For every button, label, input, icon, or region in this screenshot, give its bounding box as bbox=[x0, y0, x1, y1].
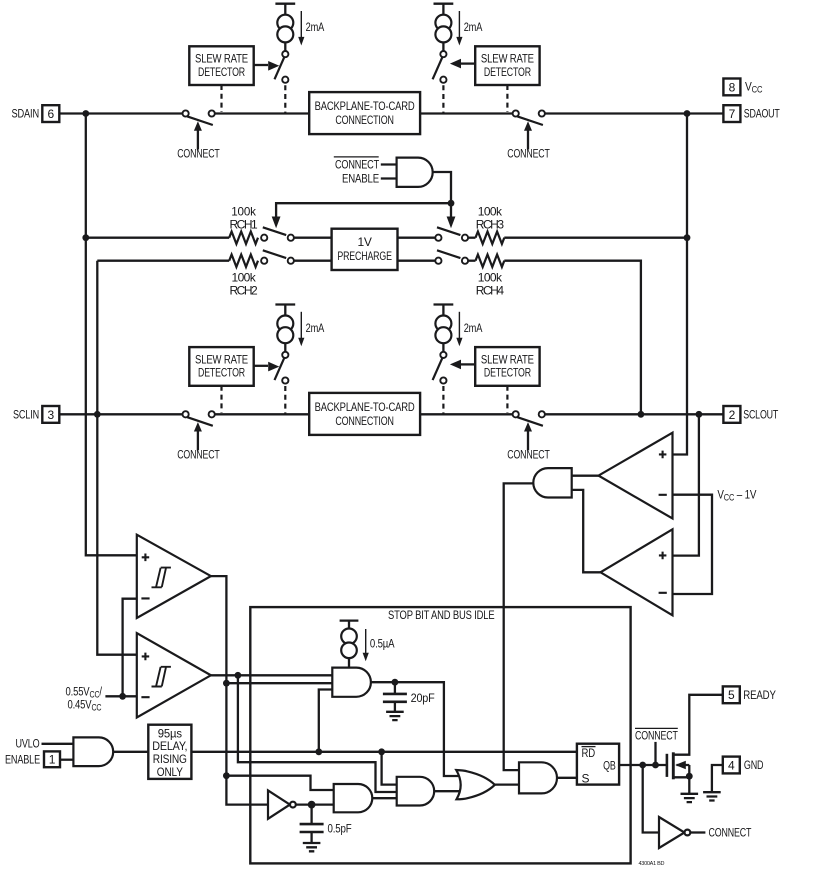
wire or gate output to and4 input2 bbox=[495, 783, 519, 785]
node schmitt B tap bbox=[235, 672, 242, 679]
wire schmitt A output down bbox=[211, 576, 268, 805]
node QB to connect-bar label bbox=[652, 762, 659, 769]
svg-text:RCH1: RCH1 bbox=[230, 218, 259, 232]
stop-bit block outline box bbox=[250, 607, 630, 863]
svg-text:RD: RD bbox=[582, 746, 596, 760]
buffer to connect output bbox=[659, 817, 685, 848]
dashed wire slew box to SCL rail bbox=[220, 386, 222, 413]
svg-text:100k: 100k bbox=[478, 204, 503, 218]
svg-text:CONNECT: CONNECT bbox=[709, 825, 752, 839]
wire delay tap down to and3 input1 bbox=[382, 752, 397, 785]
wire schmitt A tap to and2 input1 bbox=[226, 776, 333, 790]
pin 1 enable bbox=[44, 751, 60, 767]
or gate 1 bbox=[456, 770, 495, 799]
schmitt comparator A bbox=[137, 535, 211, 618]
resistor RCH2 100k bbox=[229, 255, 258, 267]
svg-text:3: 3 bbox=[48, 408, 55, 422]
node SCLIN junction bbox=[94, 411, 101, 418]
svg-text:0.5µA: 0.5µA bbox=[370, 637, 395, 651]
svg-text:S: S bbox=[582, 771, 590, 785]
svg-text:RCH4: RCH4 bbox=[476, 284, 505, 298]
1V precharge box bbox=[332, 229, 398, 270]
and gate U-CMP (left pointing) bbox=[533, 468, 571, 497]
wire RCH3 to SDAOUT vertical bbox=[504, 237, 687, 239]
svg-text:6: 6 bbox=[48, 107, 55, 121]
svg-text:QB: QB bbox=[603, 758, 616, 772]
wire SCL rail from pin 3 bbox=[59, 413, 185, 415]
wire QB down to connect buffer bbox=[643, 765, 659, 833]
flipflop RD-S-QB box bbox=[577, 744, 619, 785]
comparator A (vcc-1v sense, SCL) bbox=[599, 433, 673, 519]
capacitor 20pF bbox=[383, 694, 407, 702]
wire schmitt A tap to and1 input2 bbox=[226, 682, 332, 684]
wire buffer output bbox=[690, 831, 705, 833]
wire SCL rail middle bbox=[212, 413, 516, 415]
arrow slew detector to switch (SCL left) bbox=[254, 365, 268, 367]
svg-text:0.5pF: 0.5pF bbox=[328, 821, 352, 835]
svg-text:100k: 100k bbox=[231, 204, 257, 218]
wire precharge box to RCH4 switch bbox=[398, 260, 439, 262]
wire RCH4 to SCLOUT vertical bbox=[504, 261, 641, 415]
wire mosfet source and body to ground bbox=[675, 765, 690, 794]
svg-text:100k: 100k bbox=[232, 270, 257, 284]
wire comparator A output to and gate bbox=[572, 475, 599, 477]
bus switch with connect arrow (SDA left) bbox=[177, 110, 220, 160]
svg-text:100k: 100k bbox=[478, 270, 503, 284]
wire comparator and-gate output down to stop-bit and4 bbox=[504, 483, 534, 770]
node RCH4 to SCLOUT bbox=[638, 411, 645, 418]
svg-text:1: 1 bbox=[49, 753, 56, 767]
wire RCH1 switch to precharge box bbox=[291, 237, 332, 239]
ground below 20pF bbox=[386, 712, 404, 720]
wire 95us delay output to flipflop RD bbox=[191, 751, 577, 753]
backplane-to-card connection box (SDA) bbox=[309, 92, 420, 134]
node schmitt A tap to and1 bbox=[223, 680, 230, 687]
dashed wire slew box to SDA rail bbox=[220, 85, 222, 112]
svg-text:8: 8 bbox=[729, 80, 736, 94]
wire and1 output to or gate bbox=[371, 682, 459, 776]
wire schmitt B output to and1 input1 bbox=[211, 674, 332, 676]
node QB to buffer tap bbox=[639, 762, 646, 769]
svg-text:SCLOUT: SCLOUT bbox=[743, 408, 779, 422]
node threshold junction bbox=[119, 693, 126, 700]
wire enable input stub bbox=[381, 177, 397, 179]
wire SCLIN vertical RCH2 to schmitt B bbox=[97, 261, 137, 655]
capacitor 0.5pF bbox=[300, 824, 324, 832]
arrow onto RCH3 switch bbox=[447, 217, 456, 229]
node and1 output 20pF tap bbox=[392, 679, 399, 686]
wire RCH2 switch to precharge box bbox=[291, 260, 332, 262]
node schmitt A tap to and2 bbox=[223, 772, 230, 779]
svg-text:RCH3: RCH3 bbox=[476, 218, 505, 232]
ground for gnd pin bbox=[703, 792, 721, 800]
current source 0.5uA bbox=[340, 621, 369, 668]
dashed wire slew box to SDA rail bbox=[506, 85, 508, 112]
resistor RCH3 100k bbox=[476, 232, 505, 244]
node SCLOUT comparator tap bbox=[696, 411, 703, 418]
node SDAOUT junction bbox=[684, 110, 691, 117]
node 0.5pF tap bbox=[308, 801, 316, 809]
wire and2 output to and3 input3 bbox=[372, 797, 396, 799]
svg-text:CONNECT: CONNECT bbox=[335, 157, 380, 171]
svg-text:BACKPLANE-TO-CARD: BACKPLANE-TO-CARD bbox=[315, 400, 415, 414]
arrow slew detector to switch (SDA right) bbox=[461, 62, 475, 64]
dashed wire slew box to SCL rail bbox=[506, 386, 508, 413]
node RCH3 row to SDAOUT vertical bbox=[684, 234, 691, 241]
wire SDAOUT vertical down to comparator plus bbox=[673, 114, 688, 455]
svg-text:1V: 1V bbox=[357, 235, 371, 249]
mosfet Q1 body arrow bbox=[675, 761, 686, 770]
wire 0.5pF stub bbox=[310, 805, 312, 843]
svg-text:5: 5 bbox=[728, 688, 735, 702]
precharge switch RCH2 bbox=[261, 250, 294, 264]
wire connect-bar input stub bbox=[381, 163, 397, 165]
svg-text:UVLO: UVLO bbox=[16, 737, 40, 751]
slew rate detector box (SCL left) bbox=[189, 347, 253, 386]
pin 7 SDAOUT bbox=[723, 105, 740, 122]
svg-text:2: 2 bbox=[729, 408, 736, 422]
slew rate detector box (SDA left) bbox=[189, 46, 253, 85]
precharge switch RCH4 bbox=[435, 250, 468, 264]
wire schmitt B tap down to and3 input2 bbox=[238, 675, 397, 792]
ground below 0.5pF bbox=[303, 843, 321, 851]
wire enable pin to uvlo gate bbox=[60, 759, 74, 761]
svg-text:CONNECT: CONNECT bbox=[635, 729, 678, 743]
slew rate detector box (SDA right) bbox=[475, 46, 539, 85]
wire RCH3 row right bbox=[465, 237, 476, 239]
pin 2 SCLOUT bbox=[723, 406, 740, 423]
svg-text:READY: READY bbox=[743, 688, 776, 702]
wire inverter output to and2 input2 bbox=[296, 803, 334, 805]
wire precharge box to RCH3 switch bbox=[398, 237, 439, 239]
wire comparator B output to and gate lower input bbox=[572, 490, 601, 572]
wire RCH4 row right bbox=[465, 260, 476, 262]
and gate 3 bbox=[397, 777, 434, 806]
wire RCH2 row left bbox=[97, 260, 229, 262]
current source 2mA (SCL right) bbox=[433, 305, 483, 414]
wire comparator A minus to vcc-1v bracket bbox=[673, 495, 713, 594]
node SDAIN junction bbox=[82, 110, 89, 117]
pin 6 SDAIN bbox=[42, 105, 59, 122]
svg-text:PRECHARGE: PRECHARGE bbox=[337, 249, 392, 263]
wire connect-bar label stub bbox=[654, 742, 656, 765]
current source 2mA (SDA left) bbox=[275, 4, 325, 113]
current source 2mA (SDA right) bbox=[433, 4, 483, 113]
svg-text:STOP BIT AND BUS IDLE: STOP BIT AND BUS IDLE bbox=[388, 608, 495, 622]
and gate U-UVLO bbox=[73, 737, 113, 766]
wire SCLOUT down to comparator B plus bbox=[673, 414, 699, 555]
pin 8 VCC bbox=[723, 79, 740, 96]
mosfet Q1 gate bar bbox=[666, 754, 669, 777]
ground below mosfet bbox=[681, 794, 699, 802]
and gate 2 bbox=[334, 784, 373, 812]
pin 3 SCLIN bbox=[42, 406, 59, 423]
wire RCH1 row left bbox=[86, 237, 229, 239]
node mosfet source bbox=[686, 773, 693, 780]
label 0.55vcc/0.45vcc threshold bbox=[66, 685, 103, 699]
wire and3 output to or gate input2 bbox=[434, 790, 459, 792]
arrow slew detector to switch (SCL right) bbox=[461, 363, 475, 365]
svg-text:ONLY: ONLY bbox=[157, 765, 183, 779]
schmitt comparator B bbox=[137, 633, 211, 717]
backplane-to-card connection box (SCL) bbox=[309, 393, 420, 435]
resistor RCH1 100k bbox=[229, 232, 258, 244]
svg-text:RCH2: RCH2 bbox=[230, 284, 259, 298]
wire 0.55vcc threshold to schmitt minus inputs bbox=[105, 599, 136, 697]
bus switch with connect arrow (SCL left) bbox=[177, 411, 220, 461]
pin 4 gnd bbox=[723, 757, 740, 774]
node delay line tap to and1 bbox=[315, 748, 322, 755]
arrow onto RCH1 switch bbox=[272, 217, 281, 229]
svg-text:SDAIN: SDAIN bbox=[12, 107, 40, 121]
svg-text:7: 7 bbox=[729, 107, 736, 121]
svg-text:BACKPLANE-TO-CARD: BACKPLANE-TO-CARD bbox=[315, 99, 415, 113]
svg-text:4: 4 bbox=[728, 758, 735, 772]
inverter INV1 bbox=[268, 790, 290, 818]
svg-text:SCLIN: SCLIN bbox=[13, 408, 39, 422]
bus switch with connect arrow (SCL right) bbox=[507, 411, 550, 461]
svg-text:4300A1 BD: 4300A1 BD bbox=[639, 861, 665, 867]
svg-text:CONNECTION: CONNECTION bbox=[335, 414, 394, 428]
wire connect-enable gate output to precharge switch arrows bbox=[276, 172, 451, 217]
arrow slew detector to switch (SDA left) bbox=[254, 64, 268, 66]
svg-text:ENABLE: ENABLE bbox=[5, 753, 40, 767]
precharge switch RCH3 bbox=[435, 227, 468, 241]
wire SDA rail from pin 6 bbox=[59, 112, 185, 114]
and gate 1 (stop bit sense) bbox=[332, 668, 371, 697]
pin 5 ready bbox=[723, 686, 740, 703]
svg-text:ENABLE: ENABLE bbox=[342, 171, 379, 185]
precharge switch RCH1 bbox=[261, 227, 294, 241]
wire uvlo input stub bbox=[42, 743, 74, 745]
node connect-enable branch bbox=[448, 200, 455, 207]
wire delay tap up to and1 input3 bbox=[319, 690, 333, 752]
svg-text:20pF: 20pF bbox=[411, 691, 435, 705]
node delay line tap to and3 bbox=[378, 748, 385, 755]
wire and4 output to flipflop S bbox=[557, 777, 577, 779]
resistor RCH4 100k bbox=[476, 255, 505, 267]
and gate U-CE connect-enable bbox=[397, 158, 433, 187]
mosfet Q1 channel bar bbox=[672, 752, 675, 779]
wire SDA rail to pin 7 bbox=[541, 112, 723, 114]
node SDAIN to RCH1 row bbox=[82, 234, 89, 241]
label vcc-1v bbox=[717, 488, 757, 502]
wire SDAIN vertical to schmitt A bbox=[86, 114, 137, 556]
svg-text:CONNECTION: CONNECTION bbox=[335, 113, 394, 127]
wire 20pF stub bbox=[394, 682, 396, 712]
slew rate detector box (SCL right) bbox=[475, 347, 539, 386]
svg-text:GND: GND bbox=[744, 758, 764, 772]
bus switch with connect arrow (SDA right) bbox=[507, 110, 550, 160]
wire uvlo gate to 95us delay box bbox=[113, 751, 148, 753]
95us delay box bbox=[148, 725, 191, 779]
svg-text:VCC – 1V: VCC – 1V bbox=[717, 488, 757, 502]
current source 2mA (SCL left) bbox=[275, 305, 325, 414]
wire SDA rail middle bbox=[212, 112, 516, 114]
wire flipflop QB output to mosfet gate bbox=[619, 764, 667, 766]
wire mosfet drain up to ready pin bbox=[675, 695, 723, 755]
and gate 4 bbox=[519, 762, 557, 793]
wire SCL rail to pin 2 bbox=[541, 413, 723, 415]
wire gnd pin to ground bbox=[712, 765, 723, 792]
svg-text:SDAOUT: SDAOUT bbox=[744, 107, 781, 121]
comparator B (vcc-1v sense, SDA) bbox=[601, 529, 673, 615]
